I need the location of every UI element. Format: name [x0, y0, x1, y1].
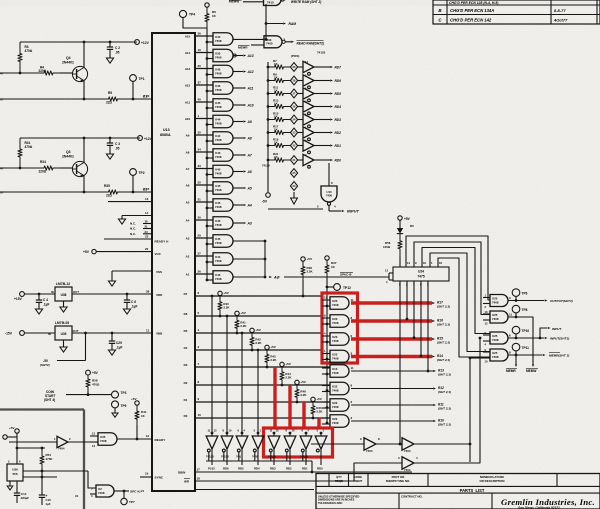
wire U25 gate2 output to MEMW	[508, 317, 533, 364]
svg-text:TP9: TP9	[121, 404, 127, 408]
connector pin 21	[290, 156, 297, 165]
svg-text:A9: A9	[186, 134, 190, 138]
svg-text:7408: 7408	[215, 223, 222, 227]
svg-text:12: 12	[146, 434, 150, 438]
ground below C29	[108, 350, 115, 355]
svg-text:(SHT 2,3): (SHT 2,3)	[437, 341, 450, 345]
wire buffer output RD6	[226, 449, 228, 465]
wire data line D7	[195, 295, 322, 297]
svg-text:TP1: TP1	[139, 77, 145, 81]
and gate U22 7408 R12	[330, 382, 349, 395]
svg-text:(SHT 2,3): (SHT 2,3)	[437, 305, 450, 309]
svg-text:8-5-77: 8-5-77	[554, 8, 566, 13]
capacitor C29 .1uF	[111, 333, 113, 341]
svg-text:A5: A5	[186, 201, 190, 205]
wire U13 pin 29 to gate	[195, 237, 213, 239]
resistor R21 1K	[267, 159, 270, 162]
transistor Q3 2N4401	[72, 161, 87, 176]
wire gate output A3	[233, 222, 243, 224]
svg-text:A15: A15	[185, 35, 191, 39]
connector pin 26	[290, 102, 297, 111]
svg-text:(SHT 2,3): (SHT 2,3)	[437, 358, 450, 362]
wire output RD4	[314, 106, 330, 108]
wire DBIN	[195, 471, 412, 473]
connector pin 28	[290, 76, 297, 85]
svg-text:21: 21	[145, 225, 149, 229]
ground below C2	[106, 58, 113, 63]
wire +5V to U13 pin 20 VCC	[92, 249, 96, 253]
nand gate U33 7400 read ram	[264, 36, 282, 48]
svg-text:18: 18	[197, 477, 201, 481]
test point TP9	[112, 401, 119, 408]
wire buffer output RD2	[289, 449, 291, 465]
svg-text:RD3: RD3	[270, 467, 276, 471]
svg-text:TP8: TP8	[522, 308, 528, 312]
svg-text:RD0: RD0	[317, 467, 323, 471]
wire A2-A0 junction vertical	[264, 241, 266, 277]
svg-text:TP6: TP6	[522, 292, 528, 296]
ground VSS	[108, 281, 115, 286]
svg-text:19: 19	[198, 48, 202, 52]
svg-text:D5: D5	[184, 329, 188, 333]
svg-text:RAM: RAM	[289, 22, 297, 26]
svg-text:+5V: +5V	[270, 345, 277, 349]
svg-text:CHG'D PER ECN 142: CHG'D PER ECN 142	[450, 18, 492, 23]
svg-text:RD0: RD0	[335, 158, 342, 162]
test point TP7	[123, 491, 125, 498]
svg-text:470Ω: 470Ω	[25, 145, 33, 149]
svg-text:(SHT 2,3): (SHT 2,3)	[437, 323, 450, 327]
svg-text:IDENTIFYING NO.: IDENTIFYING NO.	[386, 479, 410, 483]
wire gate output A8	[233, 137, 243, 139]
svg-text:28: 28	[146, 290, 150, 294]
wire bracket down right	[469, 444, 471, 462]
wire output RD2	[314, 132, 330, 134]
wire phase-1 to U13 pin 22	[0, 98, 105, 100]
svg-text:+5V: +5V	[316, 397, 323, 401]
wire +15V to U38	[24, 293, 55, 295]
svg-text:A8: A8	[186, 151, 190, 155]
svg-text:(SHT 2,3): (SHT 2,3)	[438, 407, 451, 411]
wire output RD0	[314, 159, 330, 161]
connector pin 24	[290, 115, 297, 124]
capacitor C3 .05	[109, 138, 111, 143]
svg-text:D4: D4	[184, 346, 188, 350]
and gate U22 7408 R11	[330, 399, 349, 412]
svg-text:4Oct77: 4Oct77	[553, 18, 568, 23]
and gate U45 7408	[213, 99, 233, 112]
wire data line D5	[195, 332, 322, 334]
svg-text:11: 11	[351, 366, 354, 370]
svg-text:RD5: RD5	[238, 467, 244, 471]
and gate U45 7408	[213, 65, 233, 78]
wire output R10	[351, 420, 433, 422]
svg-text:#1: #1	[75, 494, 79, 498]
svg-text:D7: D7	[184, 292, 188, 296]
svg-text:8080A: 8080A	[160, 133, 171, 137]
svg-text:17: 17	[197, 468, 201, 472]
svg-text:TP12: TP12	[343, 286, 351, 290]
svg-text:2.2K: 2.2K	[240, 324, 247, 328]
svg-text:14: 14	[145, 211, 149, 215]
test point TP4	[179, 10, 186, 17]
svg-text:.05: .05	[115, 147, 120, 151]
svg-text:7408: 7408	[492, 300, 499, 304]
gate input bus	[206, 28, 208, 280]
wire gate output A1	[233, 258, 266, 260]
svg-text:SYNC: SYNC	[155, 476, 164, 480]
svg-text:TP4: TP4	[189, 13, 195, 17]
svg-text:37: 37	[198, 81, 202, 85]
svg-text:MEMR: MEMR	[506, 369, 516, 373]
and gate U13 7408 R13	[330, 365, 349, 378]
svg-text:13: 13	[485, 310, 488, 314]
svg-text:A6: A6	[186, 184, 190, 188]
wire U13 pin 34 to gate	[195, 151, 213, 153]
svg-text:C29: C29	[116, 341, 122, 345]
svg-text:.033µF: .033µF	[20, 496, 29, 500]
buffer 74125 RD3	[303, 114, 314, 125]
svg-text:25: 25	[198, 181, 202, 185]
svg-text:2.2K: 2.2K	[285, 376, 292, 380]
resistor R17 1K	[267, 131, 270, 134]
svg-text:SPC #1: SPC #1	[130, 490, 141, 494]
svg-text:7408: 7408	[332, 339, 339, 343]
red highlight drop D3	[273, 367, 276, 428]
and gate U45 7408	[213, 235, 233, 248]
capacitor C15 1uF	[41, 477, 43, 495]
svg-text:U36: U36	[12, 468, 18, 472]
svg-text:33: 33	[198, 164, 202, 168]
wire buffer output RD4	[257, 449, 259, 465]
capacitor C2 .05	[109, 42, 111, 47]
no-connect stubs U13	[143, 223, 153, 225]
regulator U39 LM79L05	[55, 326, 72, 340]
svg-text:100Ω: 100Ω	[383, 245, 391, 249]
and gate U45 7408	[213, 199, 233, 212]
diode D5	[399, 220, 401, 228]
svg-text:A13: A13	[185, 67, 191, 71]
wire SPAC-0 to U24	[284, 276, 389, 278]
wire U13 pin 33 to gate	[195, 168, 213, 170]
svg-text:7400: 7400	[266, 42, 273, 46]
IC U13 8080A body	[152, 33, 195, 491]
svg-text:7408: 7408	[332, 321, 339, 325]
buffer 74125 RD0	[320, 433, 322, 436]
buffer 74125 RD1	[303, 140, 314, 151]
svg-text:Ø1: Ø1	[143, 95, 147, 99]
svg-text:U10: U10	[327, 190, 332, 194]
svg-text:22Ω: 22Ω	[106, 101, 113, 105]
wire WR inverter row	[354, 463, 402, 481]
svg-text:A7: A7	[247, 153, 252, 157]
wire buffer to inverter	[311, 443, 364, 445]
buffer 74125 RD1	[305, 433, 307, 436]
svg-text:A12: A12	[247, 70, 254, 74]
and gate U45 7408	[213, 165, 233, 178]
wire SPC 1 output	[114, 490, 129, 492]
svg-text:A4: A4	[247, 203, 252, 207]
svg-text:IDENT: IDENT	[354, 479, 363, 483]
svg-text:.1µF: .1µF	[43, 303, 49, 307]
svg-text:16: 16	[145, 220, 149, 224]
wire buffer output RD1	[305, 449, 307, 465]
regulator U38 LM78L12	[55, 287, 72, 301]
ground below U39	[63, 340, 65, 347]
wire U39 output VBB to U13 pin 11	[72, 332, 153, 334]
svg-text:1µF: 1µF	[46, 502, 51, 506]
svg-text:A6: A6	[247, 170, 252, 174]
svg-text:VSS: VSS	[156, 270, 162, 274]
svg-text:REQD: REQD	[335, 479, 343, 483]
svg-text:INPUT: INPUT	[552, 327, 562, 331]
svg-text:IN: IN	[51, 290, 54, 294]
wire U13 pin 27 to gate	[195, 255, 213, 257]
svg-text:A10: A10	[185, 117, 191, 121]
wire Q4 emitter to phase-1 line	[83, 80, 85, 99]
and gate U43 7408	[213, 271, 233, 284]
svg-text:7408: 7408	[332, 405, 339, 409]
wire coin start	[66, 394, 112, 396]
svg-text:Ø2: Ø2	[143, 188, 147, 192]
svg-text:TP10: TP10	[522, 329, 530, 333]
svg-text:13: 13	[324, 296, 327, 300]
svg-text:A1: A1	[186, 273, 190, 277]
svg-text:2.2K: 2.2K	[223, 306, 230, 310]
svg-text:23: 23	[145, 235, 149, 239]
wire ready to U13	[117, 438, 153, 440]
svg-text:07: 07	[0, 191, 4, 195]
svg-text:7408: 7408	[215, 171, 222, 175]
wire +5V timer	[15, 429, 19, 433]
svg-text:20: 20	[145, 247, 149, 251]
svg-text:11: 11	[351, 298, 354, 302]
and gate U35 7408 ready	[98, 433, 117, 446]
svg-text:74125: 74125	[206, 455, 214, 459]
resistor R54 470K	[41, 448, 43, 451]
and gate U45 7408	[213, 182, 233, 195]
svg-text:R35: R35	[104, 184, 110, 188]
svg-text:A3: A3	[247, 221, 252, 225]
svg-text:C 6: C 6	[131, 300, 136, 304]
ground below U36	[9, 481, 11, 486]
svg-text:13: 13	[92, 444, 95, 448]
svg-text:7408: 7408	[215, 277, 222, 281]
terminal above R37	[325, 256, 329, 260]
wire input gate output	[268, 208, 323, 210]
svg-text:+5V: +5V	[285, 362, 292, 366]
svg-text:AØ: AØ	[273, 276, 280, 280]
pull-up R38 2.2K on D7	[301, 257, 305, 261]
inverter 7404 a	[364, 438, 376, 450]
svg-text:30: 30	[198, 64, 202, 68]
svg-text:30: 30	[198, 216, 202, 220]
wire RAM tap	[266, 23, 283, 25]
inverter 7404 b	[402, 438, 414, 450]
gate rail vertical	[326, 278, 328, 423]
wire Q4 base	[0, 72, 37, 74]
svg-text:READY: READY	[155, 438, 167, 442]
svg-text:7408: 7408	[215, 138, 222, 142]
inverter 7404 c	[402, 457, 414, 469]
svg-text:220Ω: 220Ω	[39, 170, 47, 174]
svg-text:U39: U39	[61, 332, 67, 336]
wire timer outputs	[23, 470, 88, 472]
svg-text:MEMW: MEMW	[526, 369, 536, 373]
wire U13 pin 40 to gate	[195, 101, 213, 103]
wire U13 pin 31 to gate	[195, 201, 213, 203]
svg-text:CONTRACT NO.: CONTRACT NO.	[401, 495, 423, 499]
wire Q4 collector	[83, 42, 85, 68]
svg-text:R34: R34	[40, 160, 46, 164]
svg-text:N.C.: N.C.	[130, 222, 136, 226]
red highlight drop D1	[302, 402, 305, 428]
connector pin 23	[290, 128, 297, 137]
wire READY H to U13 pin 23	[104, 238, 152, 240]
wire phase-2 to U13 pin 15	[0, 191, 105, 193]
wire to U2 gate	[88, 471, 96, 488]
test point TP11	[512, 343, 520, 351]
svg-text:TP3: TP3	[121, 391, 127, 395]
wire gate output A5	[233, 187, 243, 189]
terminal above R6	[205, 3, 209, 7]
svg-text:OUT: OUT	[73, 290, 79, 294]
svg-text:+5V: +5V	[255, 328, 262, 332]
wire U13 pin 30 to gate	[195, 68, 213, 70]
red highlight drop D0	[317, 418, 320, 428]
spare connector pins	[290, 169, 297, 178]
and gate U23 7408 R17	[330, 297, 349, 310]
svg-text:(SHT 2,3): (SHT 2,3)	[438, 390, 451, 394]
red highlight output R17	[351, 301, 432, 304]
resistor R44 1K	[135, 405, 139, 425]
and gate U43 7408	[213, 149, 233, 162]
svg-text:D5: D5	[410, 224, 414, 228]
wire output RD5	[314, 93, 330, 95]
svg-text:RD2: RD2	[286, 467, 292, 471]
resistor R13 1K	[267, 105, 270, 108]
svg-text:2.2K: 2.2K	[307, 270, 314, 274]
resistor R9 1K	[267, 79, 270, 82]
wire U13 pin 13	[108, 201, 152, 203]
svg-text:-5V: -5V	[262, 200, 268, 204]
svg-text:7408: 7408	[215, 241, 222, 245]
svg-text:40: 40	[198, 98, 202, 102]
svg-text:U24: U24	[418, 270, 424, 274]
svg-text:+5V: +5V	[9, 426, 16, 430]
svg-text:74125: 74125	[221, 455, 229, 459]
wire buffer output RD0	[320, 449, 322, 465]
wire +12V rail Q4	[20, 41, 137, 43]
svg-text:7408: 7408	[215, 121, 222, 125]
svg-text:A3: A3	[186, 237, 190, 241]
U24 output drops	[399, 281, 401, 444]
buffer 74125 RD7	[303, 61, 314, 72]
wire read ram output	[286, 41, 292, 43]
wire output RD6	[314, 80, 330, 82]
svg-text:7400: 7400	[326, 194, 332, 198]
svg-text:D3: D3	[184, 363, 188, 367]
svg-text:+5V: +5V	[83, 250, 90, 254]
data drops to output buffers	[211, 296, 213, 433]
svg-text:22Ω: 22Ω	[106, 194, 113, 198]
capacitor C4 .1uF	[38, 294, 40, 300]
svg-text:7408: 7408	[215, 205, 222, 209]
svg-text:D2: D2	[184, 381, 188, 385]
wire STSTB	[195, 489, 314, 491]
svg-text:DBIN: DBIN	[178, 471, 185, 475]
gray annotation bus horizontal	[0, 408, 84, 410]
red highlight drop D2	[288, 385, 291, 428]
svg-text:READY H: READY H	[155, 239, 170, 243]
svg-text:2.2K: 2.2K	[270, 358, 277, 362]
svg-text:U13: U13	[163, 128, 170, 132]
svg-text:WRITE RAM (SHT 2): WRITE RAM (SHT 2)	[290, 0, 321, 4]
svg-text:D0: D0	[184, 414, 188, 418]
connector pin 26	[290, 63, 297, 72]
svg-text:(SHT 2,3): (SHT 2,3)	[438, 373, 451, 377]
wire gate output A13	[233, 55, 243, 57]
wire output R13	[351, 370, 433, 372]
svg-text:29: 29	[198, 234, 202, 238]
arrow below spare pins	[291, 192, 298, 204]
svg-text:31: 31	[198, 198, 202, 202]
svg-text:74125: 74125	[262, 164, 270, 168]
and gate U25 7408 spare	[490, 311, 508, 323]
svg-text:RD1: RD1	[335, 144, 342, 148]
svg-text:26: 26	[198, 270, 202, 274]
connector pin 22	[290, 141, 297, 150]
svg-text:2.2K: 2.2K	[255, 341, 262, 345]
svg-text:+5V: +5V	[404, 217, 411, 221]
svg-text:VDD: VDD	[156, 293, 163, 297]
svg-text:-15V: -15V	[5, 332, 13, 336]
svg-text:74125: 74125	[317, 51, 326, 55]
and gate U22 7408 R10	[330, 415, 349, 428]
svg-text:7408: 7408	[332, 371, 339, 375]
wire buffer output PL03	[211, 449, 213, 465]
svg-text:.05: .05	[115, 51, 120, 55]
resistor R3 470	[18, 42, 22, 73]
resistor R31 470	[18, 138, 22, 168]
svg-text:A4: A4	[186, 219, 190, 223]
svg-text:U38: U38	[61, 293, 67, 297]
wire INPUT branch	[540, 328, 547, 338]
svg-text:11: 11	[146, 329, 150, 333]
svg-text:7408: 7408	[215, 105, 222, 109]
buffer 74125 RD4	[303, 101, 314, 112]
wire data line D6	[195, 315, 322, 317]
wire gate output A0	[233, 276, 266, 278]
svg-text:(SHT 2,3): (SHT 2,3)	[438, 423, 451, 427]
wire inverter output up right	[414, 358, 470, 444]
svg-text:7408: 7408	[215, 155, 222, 159]
svg-text:470Ω: 470Ω	[25, 49, 33, 53]
wire -5V tap	[85, 333, 87, 361]
wire MEMR(SHT3)	[508, 354, 542, 356]
ground below TP9	[114, 408, 116, 413]
wire output RD3	[314, 119, 330, 121]
svg-text:+5V: +5V	[307, 257, 314, 261]
svg-text:7408: 7408	[332, 356, 339, 360]
svg-text:RD7: RD7	[335, 65, 342, 69]
red highlight output R16	[351, 319, 432, 322]
red highlight box output buffers	[264, 428, 333, 457]
svg-text:13: 13	[145, 197, 149, 201]
svg-text:556: 556	[12, 472, 17, 476]
wire Q3 base	[0, 167, 37, 169]
timer U36 556 body	[7, 464, 23, 481]
